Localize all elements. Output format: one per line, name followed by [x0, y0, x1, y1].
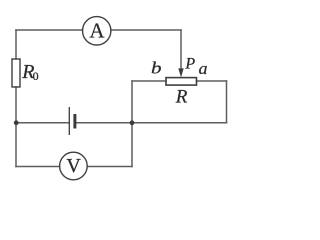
voltmeter U2 circle [60, 152, 88, 180]
wire right drop [226, 81, 228, 123]
wire pot right terminal [197, 80, 227, 82]
wire middle right [76, 122, 226, 124]
wire riser b-node [131, 81, 133, 167]
svg-text:V: V [66, 155, 81, 177]
wire slider drop [180, 30, 182, 71]
wire left lower [15, 87, 17, 167]
rheostat R body [166, 78, 197, 86]
wire top-right segment [111, 29, 181, 31]
svg-text:0: 0 [33, 69, 39, 83]
junction dot left [14, 120, 19, 125]
svg-text:R: R [175, 86, 188, 107]
battery short plate [73, 114, 76, 129]
wire bottom-right [87, 166, 132, 168]
slider arrowhead P [178, 68, 183, 77]
ammeter U1 circle [83, 17, 111, 45]
svg-text:a: a [199, 59, 208, 78]
resistor R0 [12, 59, 20, 87]
battery long plate [68, 107, 70, 135]
svg-text:P: P [184, 56, 195, 73]
wire left upper [15, 30, 17, 59]
wire pot left terminal [132, 80, 166, 82]
junction dot b-node [130, 120, 135, 125]
svg-text:A: A [89, 18, 105, 42]
svg-text:b: b [151, 59, 162, 78]
wire bottom-left [16, 166, 60, 168]
wire top-left segment [16, 29, 83, 31]
wire middle left [16, 122, 69, 124]
